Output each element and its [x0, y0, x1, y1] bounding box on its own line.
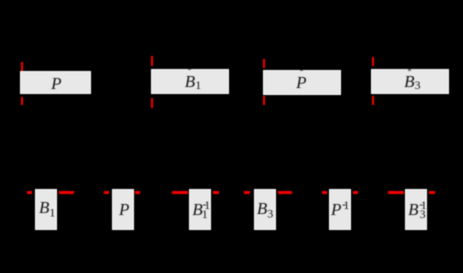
box B3 (bottom row 4)	[254, 189, 276, 230]
red dashed level line (bottom row, box P inverse)	[322, 191, 327, 194]
red dashed time line t1 (top row, left of box P)	[21, 62, 23, 71]
red dashed time line t4 (top row, left of box B3)	[372, 57, 374, 66]
box P^-1 (bottom row 5)	[329, 189, 351, 230]
red dashed time line t3 (top row, left of box P)	[263, 59, 265, 68]
box B1^-1 (bottom row 3)	[189, 189, 211, 230]
red dashed level line (bottom row, box B1)	[27, 191, 32, 194]
red dashed level line (bottom row, box P)	[104, 191, 109, 194]
red dashed level line (bottom row, box B3 inverse)	[388, 191, 404, 194]
box P (top row 3)	[263, 70, 341, 95]
box B1 (top row 2)	[151, 69, 229, 95]
faint tick at top center of box P (top row 3)	[300, 69, 303, 71]
red dashed level line (bottom row, box B1 inverse)	[172, 191, 188, 194]
box B3^-1 (bottom row 6)	[405, 189, 428, 230]
box B1 (bottom row 1)	[35, 189, 58, 230]
faint tick at top center of box B1 (top row)	[188, 68, 191, 70]
red dashed time line t2 (top row, left of box B1)	[151, 56, 153, 66]
box P (top row 1)	[20, 71, 91, 94]
red dashed level line (bottom row, box B3)	[244, 191, 249, 194]
box P (bottom row 2)	[112, 189, 134, 230]
faint tick at top center of box B3 (top row)	[408, 69, 411, 71]
box B3 (top row 4)	[371, 69, 450, 94]
